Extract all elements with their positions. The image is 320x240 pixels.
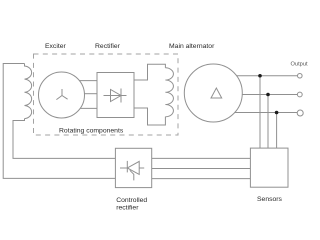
svg-text:Rotating components: Rotating components [59, 128, 124, 135]
svg-text:Main alternator: Main alternator [169, 43, 215, 50]
svg-text:Sensors: Sensors [257, 196, 283, 203]
svg-text:Exciter: Exciter [45, 43, 67, 50]
svg-text:Rectifier: Rectifier [95, 43, 121, 50]
svg-text:Output: Output [291, 62, 308, 68]
svg-text:Controlled: Controlled [116, 197, 147, 204]
svg-text:rectifier: rectifier [116, 205, 139, 212]
